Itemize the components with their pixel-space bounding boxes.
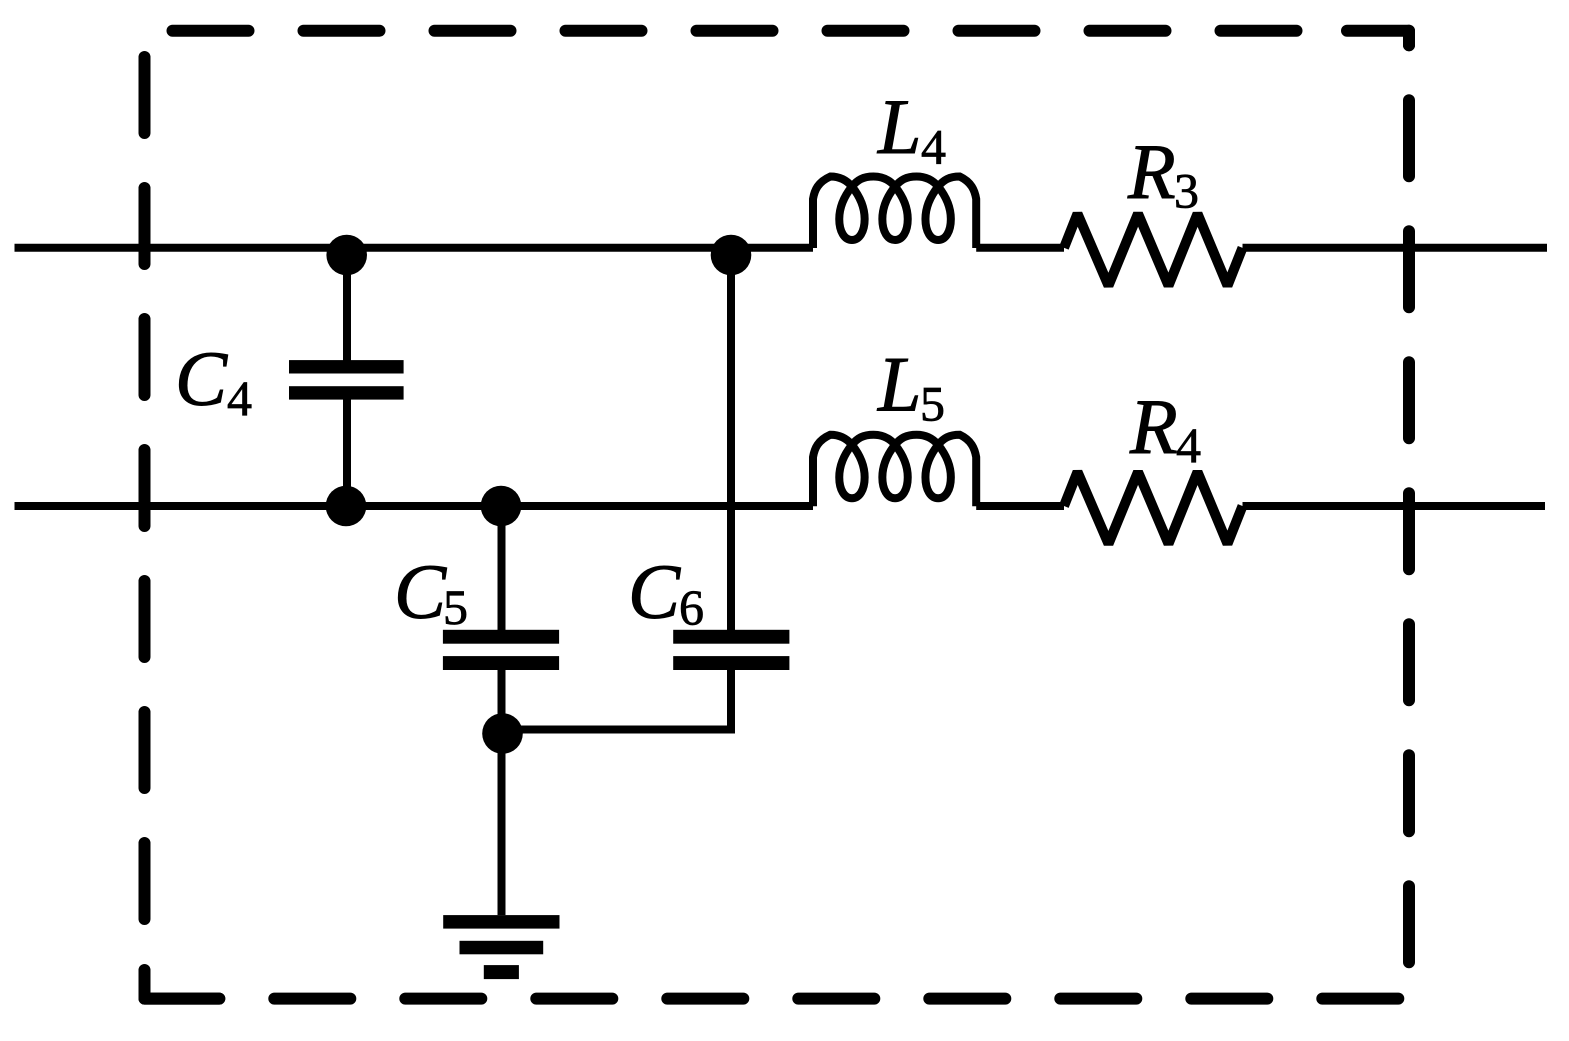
- wire: C5 top lead from bottom line: [498, 506, 506, 630]
- svg-text:L: L: [877, 341, 921, 428]
- svg-text:C: C: [394, 548, 447, 635]
- dashed enclosure box: top-right corner dash: [1347, 31, 1409, 46]
- ground symbol: [443, 915, 559, 929]
- wire: top line, left segment: [15, 244, 814, 252]
- node dot: top line / C4: [326, 235, 367, 276]
- dashed enclosure box: bottom side: [145, 993, 1410, 1005]
- capacitor C4 plates: [289, 360, 404, 373]
- wire: top line, right segment: [1243, 244, 1548, 252]
- wire: C5 bottom lead through node down to ground: [498, 670, 506, 916]
- wire: C4 top lead from top line: [343, 248, 351, 361]
- svg-text:5: 5: [443, 579, 468, 635]
- wire: C6 bottom lead down to corner: [727, 670, 735, 734]
- dashed enclosure box: bottom-left corner dash: [145, 970, 220, 999]
- wire: horizontal connector from C5/C6 junction node: [502, 726, 735, 734]
- wire: top line, between L4 and R3: [976, 244, 1064, 252]
- node dot: top line / C6 branch: [711, 235, 752, 276]
- svg-text:L: L: [877, 83, 921, 170]
- node dot: bottom line / C4: [326, 486, 367, 527]
- svg-text:C: C: [175, 335, 228, 422]
- svg-text:6: 6: [679, 579, 704, 635]
- dashed enclosure box: top side: [145, 25, 1316, 37]
- resistor R3 zigzag: [1064, 214, 1243, 286]
- wire: C4 bottom lead to bottom line: [343, 399, 351, 506]
- capacitor C5 plates: [443, 630, 559, 644]
- resistor R4 zigzag: [1064, 472, 1243, 544]
- wire: bottom line, right segment: [1243, 502, 1546, 510]
- svg-text:3: 3: [1174, 163, 1199, 219]
- svg-text:4: 4: [1176, 417, 1201, 473]
- svg-text:R: R: [1129, 383, 1178, 470]
- svg-text:R: R: [1127, 128, 1176, 215]
- wire: bottom line, left segment: [15, 502, 814, 510]
- wire: bottom line, between L5 and R4: [976, 502, 1064, 510]
- node dot: bottom line / C5: [481, 486, 522, 527]
- inductor L5 coil: [813, 435, 976, 507]
- node dot: C5/C6 junction above ground: [482, 713, 523, 754]
- svg-text:4: 4: [227, 370, 252, 426]
- svg-text:5: 5: [920, 376, 945, 432]
- dashed enclosure box: right side: [1403, 31, 1415, 999]
- capacitor C6 plates: [673, 630, 789, 644]
- svg-text:4: 4: [921, 119, 946, 175]
- dashed enclosure box: left side: [139, 31, 151, 965]
- svg-text:C: C: [628, 548, 681, 635]
- wire: vertical from top-line node down to C6, crossing bottom line: [727, 248, 735, 630]
- inductor L4 coil: [813, 177, 976, 249]
